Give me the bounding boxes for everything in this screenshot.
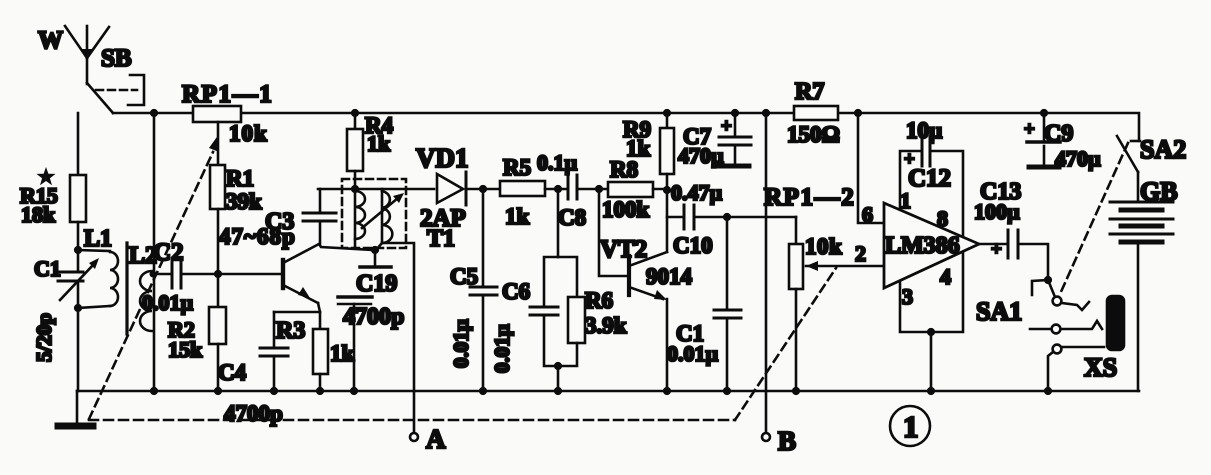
jack XS [1107,296,1124,350]
svg-text:R3: R3 [276,318,305,344]
node A terminal [410,433,418,441]
svg-text:C5: C5 [450,264,478,289]
transistor VT2 9014 [627,256,631,295]
wire C6/R6 to bus [557,366,560,391]
svg-text:3: 3 [902,284,913,309]
capacitor C1 0.01u [726,217,729,309]
antenna W [86,26,89,84]
svg-text:2: 2 [855,241,866,266]
svg-text:1k: 1k [330,341,355,366]
svg-text:XS: XS [1084,353,1117,382]
svg-text:0.01µ: 0.01µ [142,290,194,315]
wire top rail left segment (antenna to RP1-1) [113,112,193,115]
resistor R4 1k [354,113,357,129]
svg-text:+: + [991,239,1002,260]
svg-text:18k: 18k [21,202,56,227]
svg-text:C9: C9 [1044,121,1073,147]
svg-text:C19: C19 [356,271,397,297]
wire RP1-1 wiper to R1 [217,122,220,165]
svg-text:0.01µ: 0.01µ [667,341,719,366]
capacitor C4 4700p [273,312,276,347]
resistor R1 39k [210,165,225,209]
transistor VT1 [281,260,285,288]
ground [76,391,79,424]
svg-text:47~68p: 47~68p [219,224,296,249]
svg-text:R6: R6 [585,288,613,313]
node base junction [214,270,222,278]
svg-text:VT2: VT2 [600,236,647,263]
svg-text:W: W [38,27,63,54]
wire left column top [77,113,80,175]
capacitor C3 47~68p [303,220,336,223]
transformer T1 primary winding [355,191,365,239]
svg-text:470µ: 470µ [1055,146,1101,171]
wire C8 node to VT2 base [599,189,629,276]
battery GB [1137,172,1140,201]
svg-text:T1: T1 [427,226,455,252]
capacitor C12 10u [921,137,924,166]
capacitor C1 variable 5/20p [58,271,83,274]
wire battery to bus [1137,244,1140,391]
resistor R8 100k [608,182,653,197]
potentiometer RP1-2 10k [795,217,798,244]
svg-text:R1: R1 [226,166,254,191]
capacitor C6 0.01u [544,257,558,306]
transformer T1 secondary winding [382,191,392,243]
svg-text:C12: C12 [908,165,951,192]
svg-text:C2: C2 [153,239,184,266]
svg-text:R7: R7 [795,79,824,105]
wire antenna node to ground bus [153,113,156,391]
wire antenna to rail [87,83,113,113]
wire C1 to bus [77,281,80,391]
wire gang dashed diagonal to RP1-1 [89,152,213,419]
wire gang dashed bottom horizontal [89,419,735,422]
op-amp U1 LM386 triangle [884,203,979,288]
svg-text:1k: 1k [367,131,391,156]
svg-text:4: 4 [940,264,951,289]
svg-text:3.9k: 3.9k [585,313,627,338]
svg-text:1k: 1k [626,136,651,161]
node main vertical at bus [150,387,158,395]
switch SA1 contact 3 [1053,345,1062,354]
svg-text:C8: C8 [558,205,586,230]
wire VT1 collector to T1 primary [319,244,373,250]
node L1/C1 top [74,246,82,254]
wire VT2 collector up [666,189,669,252]
svg-text:1: 1 [900,188,911,213]
inductor L1 [78,250,110,251]
svg-text:L1: L1 [84,226,112,252]
svg-text:10k: 10k [805,234,842,259]
svg-text:SA1: SA1 [976,297,1022,326]
wire secondary bottom to terminal A [382,243,414,433]
svg-text:VD1: VD1 [416,143,469,173]
svg-text:+: + [721,116,732,137]
svg-text:10µ: 10µ [906,118,942,143]
svg-text:4700p: 4700p [343,304,404,330]
svg-text:RP1—1: RP1—1 [182,81,273,108]
wire LM386 box bottom to bus [930,332,933,391]
wire top rail mid segment (RP1-1 to R7) [241,112,794,115]
op-amp U1 LM386 bypass box [900,151,920,210]
wire detector line [318,188,434,191]
switch SB (push button) [96,89,137,92]
resistor R7 150ohm [794,106,838,120]
wire top rail right segment (R7 to SA2 corner) [838,113,1139,141]
wire rail to LM386 pin6 [858,113,884,223]
wire RP1-2 wiper to LM386 pin2 [806,265,884,268]
wire rail to terminal B [765,113,768,433]
wire ground bus [77,390,1139,393]
wire gang dashed SA2 to SA1 [1060,143,1128,294]
resistor R9 1k [666,113,669,128]
svg-text:100µ: 100µ [974,199,1020,224]
wire R1 to base node [217,209,220,274]
capacitor C5 0.01u [482,189,485,286]
svg-text:150Ω: 150Ω [787,122,840,147]
wire C2 to VT1 base [181,273,283,276]
svg-text:LM386: LM386 [885,233,960,259]
resistor R3 1k [313,329,328,374]
svg-text:0.47µ: 0.47µ [671,180,723,205]
transformer core bar [125,243,128,334]
svg-text:100k: 100k [602,197,650,222]
switch SA2 [1131,140,1140,143]
wire C13 to SA1 [1018,244,1048,280]
wire gang dashed diagonal to RP1-2 [735,268,836,420]
capacitor C2 0.01u [171,262,174,288]
svg-text:0.01µ: 0.01µ [449,319,473,368]
svg-text:C10: C10 [673,233,713,258]
diode VD1 2AP [437,174,463,203]
svg-text:9014: 9014 [646,264,693,289]
svg-text:0.01µ: 0.01µ [490,324,514,373]
resistor R6 3.9k [558,257,577,297]
switch SA1 contact 2 [1052,325,1061,334]
node L1/C1 bottom [74,304,82,312]
transformer T1 shield box [342,179,406,248]
resistor R2 15k [217,274,220,307]
switch SA1 contact 1 [1053,297,1062,306]
svg-text:5/20p: 5/20p [32,313,56,362]
svg-text:C4: C4 [218,360,247,385]
wire VT2 emitter to bus [666,299,669,391]
svg-text:470µ: 470µ [678,143,724,168]
svg-text:6: 6 [862,202,873,227]
figure number 1 [890,406,930,446]
svg-text:0.1µ: 0.1µ [537,150,578,175]
svg-text:15k: 15k [168,337,203,362]
svg-text:39k: 39k [226,189,262,214]
capacitor C10 0.47u [667,216,684,219]
wire LM386 output [979,243,1007,246]
svg-text:C6: C6 [502,279,530,304]
node antenna/rail junction [150,109,158,117]
svg-text:B: B [778,426,796,456]
wire VT1 emitter node [318,303,320,329]
potentiometer RP1-1 10k [193,106,241,122]
svg-text:1: 1 [903,409,919,444]
svg-text:4700p: 4700p [224,401,283,426]
wire R5/C8 node down [557,189,560,257]
svg-text:RP1—2: RP1—2 [764,184,855,211]
transformer tuning arrow [362,198,398,228]
capacitor C8 0.1u [567,175,570,199]
inductor L2 [140,271,152,331]
resistor R5 1k [500,181,545,196]
svg-text:8: 8 [937,206,948,231]
svg-text:A: A [426,424,446,454]
capacitor C13 100u [1007,230,1010,258]
svg-text:C1: C1 [34,256,61,281]
wire R15 to C1 [77,222,80,271]
svg-text:1k: 1k [505,204,530,229]
capacitor C9 470u [1043,113,1046,140]
node B terminal [762,433,770,441]
svg-text:+: + [1024,119,1035,140]
svg-text:SB: SB [101,45,132,72]
capacitor C19 4700p [374,250,377,265]
capacitor C7 470u [734,113,737,136]
svg-text:SA2: SA2 [1140,135,1186,164]
wire L2 to C2 [152,273,172,276]
svg-text:10k: 10k [229,121,268,146]
resistor R15 [70,175,86,222]
svg-text:R5: R5 [503,155,531,180]
